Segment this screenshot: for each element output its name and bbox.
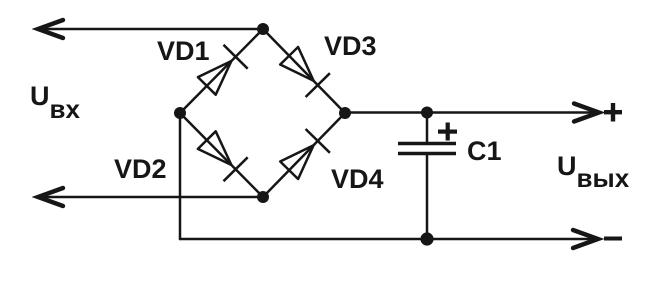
node: left (minus) junction bbox=[174, 107, 186, 119]
node: top AC junction bbox=[257, 23, 269, 35]
svg-text:VD1: VD1 bbox=[157, 36, 210, 66]
diode VD4 bbox=[280, 129, 330, 179]
svg-text:VD2: VD2 bbox=[114, 154, 167, 184]
capacitor plus sign bbox=[438, 123, 457, 141]
diode VD3 bbox=[280, 47, 330, 97]
wire: bridge arm bottom node to right node bbox=[263, 113, 345, 197]
wire: bridge arm left node to bottom node bbox=[180, 113, 263, 197]
svg-text:Uвых: Uвых bbox=[557, 151, 630, 193]
capacitor C1 plates bbox=[398, 144, 456, 154]
svg-text:Uвх: Uвх bbox=[30, 81, 80, 124]
node: bottom AC junction bbox=[257, 191, 269, 203]
node: capacitor bottom junction bbox=[420, 232, 433, 245]
output plus sign bbox=[604, 103, 622, 122]
svg-text:VD3: VD3 bbox=[324, 31, 377, 61]
wire: lower AC input from arrow to bottom node bbox=[40, 196, 263, 199]
wire: bridge arm left node to top node bbox=[180, 29, 263, 113]
capacitor C1 top lead bbox=[426, 113, 429, 143]
wire: bottom output rail bbox=[180, 238, 595, 241]
svg-text:C1: C1 bbox=[467, 136, 502, 166]
arrowhead: plus output arrow bbox=[574, 104, 599, 122]
wire: + output rail from right node to arrow bbox=[345, 111, 596, 114]
wire: bridge arm top node to right node bbox=[263, 29, 345, 113]
svg-text:VD4: VD4 bbox=[331, 164, 384, 194]
wire: left vertical from left node down to bottom rail bbox=[179, 113, 182, 239]
arrowhead: lower-left input arrow bbox=[38, 188, 63, 206]
node: right (plus) junction bbox=[339, 107, 351, 119]
output minus sign bbox=[604, 237, 622, 241]
node: capacitor top junction bbox=[421, 107, 433, 119]
diode VD1 bbox=[198, 45, 248, 95]
wire: top AC input from arrow to top node bbox=[40, 28, 263, 31]
capacitor C1 bottom lead bbox=[426, 154, 429, 239]
diode VD2 bbox=[198, 131, 248, 181]
arrowhead: minus output arrow bbox=[573, 230, 598, 248]
arrowhead: upper-left input arrow bbox=[38, 20, 63, 38]
